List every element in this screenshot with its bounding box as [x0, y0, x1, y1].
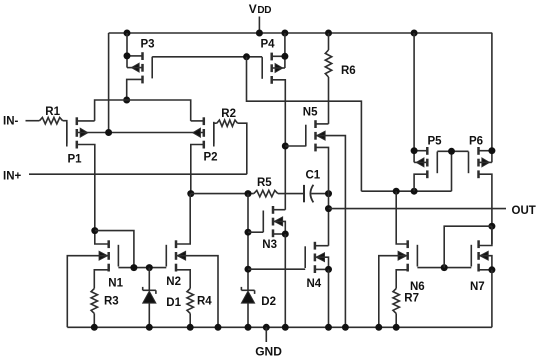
label GND — [255, 345, 282, 359]
wire N2 source lead — [176, 270, 190, 289]
transistor N4 — [305, 242, 324, 273]
wire D2 bottom lead — [247, 303, 249, 327]
label R3 — [104, 295, 119, 307]
junction N3 gate tap — [245, 229, 252, 236]
wire D2 branch vertical — [247, 194, 249, 291]
label D2 — [261, 296, 276, 308]
wire P1-P2 body line — [77, 132, 204, 134]
resistor R7 — [393, 289, 399, 314]
wire N6 source lead — [396, 270, 408, 289]
junction P5 source dot — [411, 147, 418, 154]
wire N5 source down — [316, 147, 329, 245]
wire rail right drop to P6 source — [491, 33, 493, 162]
label N7 — [470, 281, 485, 293]
label P5 — [428, 135, 443, 147]
label N6 — [410, 281, 425, 293]
wire VDD top rail — [109, 32, 493, 34]
junction P4 source dot — [281, 53, 288, 60]
wire P5 source lead — [414, 150, 427, 152]
label N4 — [307, 278, 322, 290]
svg-text:C1: C1 — [306, 169, 321, 181]
svg-text:GND: GND — [255, 345, 282, 359]
wire P6 body lead — [479, 161, 492, 163]
junction P3 drain to tail line — [123, 97, 130, 104]
svg-text:V: V — [249, 2, 257, 16]
wire P1 drain down — [77, 145, 95, 231]
junction P5/P6 gate tap — [448, 148, 455, 155]
wire P5 body lead — [414, 161, 427, 163]
resistor R1 — [40, 118, 63, 124]
wire N2 body to ground — [176, 256, 218, 328]
transistor N5 — [306, 120, 325, 151]
wire ground rail — [67, 326, 492, 328]
label R4 — [197, 296, 212, 308]
wire N7 source lead — [479, 269, 492, 271]
wire bias line corner up — [451, 151, 453, 191]
label N5 — [303, 107, 318, 119]
junction mirror gate tap — [441, 264, 448, 271]
transistor P4 — [262, 53, 283, 84]
svg-text:P1: P1 — [68, 154, 83, 166]
label P2 — [204, 152, 218, 164]
wire OUT line — [329, 208, 507, 210]
svg-text:N2: N2 — [166, 276, 181, 288]
diode D2 — [241, 287, 254, 303]
wire N3 source lead — [273, 233, 285, 235]
svg-text:R1: R1 — [45, 106, 60, 118]
junction P3 source dot — [124, 52, 131, 59]
label P1 — [68, 154, 83, 166]
svg-text:P4: P4 — [261, 38, 276, 50]
label IN+ — [3, 170, 22, 182]
wire N5 gate lead — [285, 145, 306, 147]
wire P6 drain down — [479, 174, 492, 244]
svg-text:P3: P3 — [141, 38, 155, 50]
transistor N6 — [398, 240, 417, 271]
wire D1 bottom lead — [148, 303, 150, 327]
svg-text:P5: P5 — [428, 135, 443, 147]
label R5 — [257, 177, 272, 189]
svg-text:D1: D1 — [166, 297, 181, 309]
junction C1 to output branch — [325, 190, 332, 197]
junction R5 line to D2 branch — [245, 190, 252, 197]
svg-text:N3: N3 — [262, 239, 277, 251]
wire N1 drain-gate tie — [95, 231, 134, 268]
junction bias/N6 drain — [393, 188, 400, 195]
svg-text:R2: R2 — [221, 108, 236, 120]
wire P4 drain vertical to N3 — [272, 80, 286, 210]
wire N1 source lead — [94, 270, 108, 289]
wire R2 right to IN+ — [238, 123, 247, 174]
wire P5 drain down — [414, 174, 427, 191]
junction VDD rail dots — [124, 30, 418, 37]
svg-text:N6: N6 — [410, 281, 425, 293]
wire R7 to rail — [395, 313, 397, 327]
junction gate line/D1 — [146, 264, 153, 271]
wire N6-N7 gate line — [417, 267, 471, 269]
junction N4 gate tap — [245, 266, 252, 273]
wire N3 source to rail — [284, 234, 286, 327]
svg-text:R3: R3 — [104, 295, 119, 307]
label N3 — [262, 239, 277, 251]
junction P6 source dot — [488, 147, 495, 154]
svg-text:R7: R7 — [404, 293, 419, 305]
label R2 — [221, 108, 236, 120]
wire P3 source/body vertical — [126, 33, 128, 68]
junction N7 source dot — [488, 266, 495, 273]
wire N1 body to ground — [67, 256, 108, 328]
svg-text:P2: P2 — [204, 152, 218, 164]
junction bias/P5 drain — [411, 188, 418, 195]
wire P3-P4 gate line — [152, 56, 262, 58]
resistor R3 — [91, 289, 97, 314]
label N2 — [166, 276, 181, 288]
wire N3 body jog — [273, 221, 285, 234]
transistor P6 — [469, 147, 490, 178]
svg-text:N7: N7 — [470, 281, 485, 293]
wire N4 source to rail — [328, 269, 330, 327]
wire N6 body to ground — [379, 256, 408, 328]
wire N4 drain lead — [315, 245, 329, 247]
resistor R6 — [325, 33, 331, 124]
wire N4 gate lead — [248, 268, 305, 270]
ground GND stub — [265, 327, 267, 342]
wire R1 to P1 gate — [63, 121, 67, 147]
wire tail line (P1/P2 sources) — [95, 100, 191, 121]
junction N4 source dot — [325, 266, 332, 273]
transistor N1 — [99, 240, 118, 271]
junction N3 source dot — [282, 231, 289, 238]
wire P6 source lead — [479, 150, 492, 152]
transistor P5 — [416, 147, 437, 178]
wire N7 body jog — [479, 256, 492, 270]
svg-text:DD: DD — [257, 5, 271, 16]
wire P2 gate bar — [213, 123, 215, 146]
svg-text:IN-: IN- — [3, 115, 19, 127]
label P3 — [141, 38, 155, 50]
svg-text:R4: R4 — [197, 296, 212, 308]
wire P5 source vertical — [413, 33, 415, 162]
svg-text:R6: R6 — [341, 65, 356, 77]
resistor R4 — [187, 289, 193, 314]
wire N2 drain up — [176, 194, 190, 244]
wire N4 source lead — [315, 268, 329, 270]
wire R4 to rail — [189, 313, 191, 327]
label R6 — [341, 65, 356, 77]
svg-text:N4: N4 — [307, 278, 322, 290]
junction ground rail dots — [91, 324, 400, 331]
wire rail left drop to input-pair body line — [108, 33, 110, 133]
wire second-stage bias line — [361, 190, 451, 192]
resistor R5 — [254, 190, 278, 196]
wire D1 top lead — [148, 268, 150, 291]
svg-text:IN+: IN+ — [3, 170, 22, 182]
label OUT — [512, 205, 536, 217]
wire IN- lead — [26, 120, 40, 122]
wire VDD stub — [258, 17, 260, 34]
wire P4 body lead — [272, 67, 285, 69]
wire N3 gate lead — [248, 231, 263, 233]
svg-text:R5: R5 — [257, 177, 272, 189]
transistor P1 — [67, 117, 88, 148]
label R1 — [45, 106, 60, 118]
wire N1 drain lead — [95, 231, 109, 244]
wire R5 to C1 — [278, 193, 304, 195]
wire N3 drain lead — [273, 209, 285, 211]
diode D1 — [143, 287, 156, 303]
label P4 — [261, 38, 276, 50]
svg-text:P6: P6 — [469, 135, 483, 147]
svg-text:OUT: OUT — [512, 205, 536, 217]
transistor N7 — [471, 240, 488, 271]
wire R5 node line — [191, 193, 254, 195]
label N1 — [108, 278, 123, 290]
wire N5 drain lead — [316, 123, 329, 125]
wire P4 source lead — [272, 55, 285, 57]
label D1 — [166, 297, 181, 309]
junction P6 drain / N7 drain / mirror gate — [488, 223, 495, 230]
transistor N2 — [166, 240, 185, 271]
wire bias link down-right — [247, 57, 362, 191]
junction N1 drain node — [91, 227, 98, 234]
junction N5/C1/OUT — [325, 205, 332, 212]
transistor N3 — [263, 206, 282, 237]
wire P3 source lead — [127, 55, 143, 57]
wire N7 source to rail — [491, 270, 493, 328]
wire N5 body to ground — [316, 136, 346, 328]
label IN- — [3, 115, 19, 127]
svg-text:N1: N1 — [108, 278, 123, 290]
resistor R2 — [217, 120, 238, 126]
transistor P2 — [193, 117, 214, 148]
wire IN+ line — [29, 173, 247, 175]
junction gate line tap — [243, 53, 250, 60]
junction gate line/N1 drain tie — [130, 264, 137, 271]
wire P2 source lead — [191, 120, 204, 122]
junction P4 drain to N5 gate — [282, 143, 289, 150]
wire N7 drain up — [479, 226, 492, 245]
wire N1-N2 gate line — [118, 267, 166, 269]
svg-text:N5: N5 — [303, 107, 318, 119]
power label VDD — [249, 2, 272, 16]
wire P4 source/body vertical — [284, 33, 286, 68]
wire P5-P6 gate line — [437, 150, 468, 152]
wire N6 drain up — [396, 191, 408, 244]
wire P3 drain lead — [127, 79, 143, 100]
wire R3 to rail — [93, 313, 95, 327]
wire R2 left stub — [214, 122, 217, 124]
label R7 — [404, 293, 419, 305]
capacitor C1 — [304, 185, 329, 203]
junction P2/N2 drains with R5 — [187, 190, 194, 197]
wire P3 body lead — [127, 67, 143, 69]
junction body line to VDD — [105, 129, 112, 136]
label P6 — [469, 135, 483, 147]
transistor P3 — [132, 52, 153, 83]
label C1 — [306, 169, 321, 181]
wire N4 body jog — [315, 257, 329, 269]
wire P1 source lead — [77, 120, 95, 122]
wire P2 drain down — [191, 145, 204, 194]
wire mirror gate up link — [444, 226, 492, 267]
svg-text:D2: D2 — [261, 296, 276, 308]
